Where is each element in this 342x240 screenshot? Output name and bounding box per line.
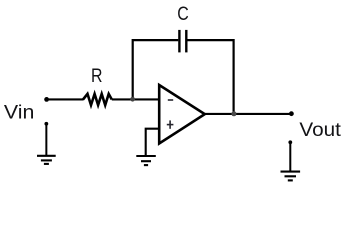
svg-text:Vin: Vin [4, 102, 35, 123]
svg-text:C: C [177, 4, 189, 25]
svg-text:R: R [91, 66, 103, 87]
svg-text:Vout: Vout [299, 120, 341, 141]
